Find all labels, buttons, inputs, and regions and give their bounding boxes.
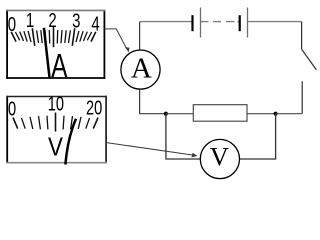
battery cell 2 positive plate (long) bbox=[247, 8, 249, 38]
leader line from voltmeter face to circuit voltmeter bbox=[107, 143, 196, 156]
leader arrowhead V bbox=[192, 153, 198, 158]
wire resistor to right junction bbox=[247, 113, 276, 115]
ammeter face box bbox=[6, 10, 105, 79]
resistor R bbox=[193, 105, 247, 122]
svg-text:2: 2 bbox=[48, 9, 56, 32]
dashed wire (omitted cells) bbox=[213, 21, 221, 23]
svg-text:V: V bbox=[210, 142, 229, 172]
svg-text:0: 0 bbox=[8, 13, 16, 36]
wire stub after cell 1 bbox=[201, 21, 209, 23]
voltmeter scale numbers 0 10 20 bbox=[8, 92, 102, 120]
battery cell 1 negative plate (short) bbox=[191, 15, 193, 31]
svg-text:3: 3 bbox=[72, 9, 80, 32]
voltmeter circle V bbox=[200, 139, 239, 178]
wire top rail left segment bbox=[140, 21, 193, 23]
ammeter needle bbox=[44, 28, 50, 79]
svg-text:1: 1 bbox=[26, 9, 34, 32]
svg-text:A: A bbox=[131, 52, 152, 84]
svg-text:10: 10 bbox=[48, 92, 64, 115]
node right junction bbox=[274, 112, 278, 116]
switch lower contact wire bbox=[301, 81, 303, 114]
svg-text:20: 20 bbox=[86, 96, 102, 119]
battery cell 1 positive plate (long) bbox=[200, 8, 202, 38]
ammeter circle A bbox=[121, 50, 160, 89]
svg-text:V: V bbox=[48, 133, 63, 162]
wire right junction to switch bbox=[276, 113, 303, 115]
wire right vertical to switch bbox=[301, 22, 303, 50]
wire top rail right segment bbox=[248, 21, 302, 23]
voltmeter scale ticks bbox=[13, 113, 98, 132]
wire top-left vertical (ammeter to top rail) bbox=[139, 22, 141, 50]
wire stub before cell 2 bbox=[237, 21, 239, 23]
wire middle rail left to resistor bbox=[166, 113, 193, 115]
node left junction bbox=[164, 112, 168, 116]
wire left junction down to voltmeter bbox=[166, 114, 200, 159]
svg-text:4: 4 bbox=[91, 12, 99, 35]
leader line from ammeter face to circuit ammeter bbox=[105, 29, 127, 49]
switch blade (open) bbox=[302, 49, 317, 70]
ammeter scale ticks bbox=[11, 27, 96, 47]
svg-text:0: 0 bbox=[8, 97, 16, 120]
leader arrowhead A bbox=[125, 47, 130, 53]
wire ammeter bottom to middle rail bbox=[140, 89, 166, 114]
voltmeter face box bbox=[6, 96, 107, 164]
voltmeter needle bbox=[65, 119, 76, 165]
ammeter scale numbers 0 1 2 3 4 bbox=[8, 9, 100, 36]
wire right junction down to voltmeter bbox=[240, 114, 276, 159]
battery cell 2 negative plate (short) bbox=[239, 15, 241, 31]
svg-text:A: A bbox=[51, 49, 68, 85]
